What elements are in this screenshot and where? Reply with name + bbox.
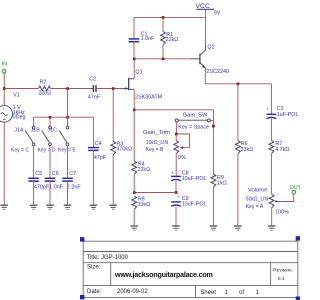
selection handle bbox=[80, 237, 84, 241]
svg-text:C4: C4 bbox=[95, 141, 102, 147]
wire bbox=[134, 16, 206, 18]
svg-text:+: + bbox=[2, 106, 5, 111]
capacitor C3 bbox=[266, 106, 298, 119]
svg-text:33kΩ: 33kΩ bbox=[241, 147, 254, 153]
svg-text:0.1: 0.1 bbox=[278, 276, 285, 282]
svg-text:0%: 0% bbox=[178, 155, 186, 161]
wire bbox=[212, 187, 214, 225]
svg-text:4.7kΩ: 4.7kΩ bbox=[275, 147, 289, 153]
junction bbox=[49, 116, 52, 119]
svg-text:J1C: J1C bbox=[47, 128, 57, 134]
ground bbox=[210, 226, 218, 230]
capacitor C6 bbox=[45, 171, 64, 190]
svg-text:Sheet: Sheet bbox=[200, 290, 216, 296]
wire bbox=[270, 118, 272, 140]
svg-text:470pF: 470pF bbox=[34, 184, 50, 190]
wire bbox=[4, 88, 38, 90]
svg-text:Q2: Q2 bbox=[207, 45, 214, 51]
source V1 bbox=[0, 92, 25, 122]
wire bbox=[67, 117, 69, 126]
wire bbox=[134, 192, 176, 194]
wire bbox=[270, 84, 272, 114]
svg-text:220Ω: 220Ω bbox=[38, 91, 51, 97]
svg-text:1: 1 bbox=[256, 290, 260, 296]
wire bbox=[279, 194, 294, 201]
potentiometer Gain_Trim bbox=[143, 130, 186, 161]
svg-text:+: + bbox=[177, 195, 180, 200]
wire bbox=[133, 209, 135, 225]
capacitor C4 bbox=[88, 141, 107, 161]
wire bbox=[67, 181, 69, 204]
svg-text:V1: V1 bbox=[13, 92, 20, 98]
resistor R8 bbox=[132, 196, 150, 209]
wire bbox=[33, 181, 35, 204]
svg-text:R2: R2 bbox=[40, 79, 47, 85]
junction bbox=[175, 191, 178, 194]
wire bbox=[205, 72, 271, 84]
wire bbox=[49, 146, 51, 178]
svg-text:J1B: J1B bbox=[31, 128, 41, 134]
selection handle bbox=[80, 295, 84, 299]
wire bbox=[205, 17, 207, 43]
svg-text:VCC: VCC bbox=[196, 3, 210, 10]
ground bbox=[234, 226, 242, 230]
junction bbox=[112, 87, 115, 90]
power VCC bbox=[196, 3, 221, 17]
svg-text:1: 1 bbox=[225, 290, 229, 296]
capacitor C2 bbox=[88, 77, 101, 101]
junction bbox=[3, 87, 6, 90]
svg-text:1kΩ: 1kΩ bbox=[217, 181, 227, 187]
svg-text:www.jacksonguitarpalace.com: www.jacksonguitarpalace.com bbox=[114, 271, 213, 279]
transistor Q2 bbox=[191, 44, 229, 75]
junction bbox=[162, 16, 165, 19]
wire bbox=[270, 154, 272, 195]
svg-text:1.0nF: 1.0nF bbox=[49, 184, 63, 190]
switch J1C bbox=[47, 126, 76, 153]
ground bbox=[90, 205, 98, 209]
switch Gain_SW bbox=[175, 113, 213, 131]
wire bbox=[33, 117, 35, 126]
svg-text:10uF-POL: 10uF-POL bbox=[182, 176, 207, 182]
svg-text:2006-09-02: 2006-09-02 bbox=[117, 289, 148, 295]
svg-text:Date:: Date: bbox=[87, 289, 102, 295]
junction bbox=[133, 58, 136, 61]
wire bbox=[112, 155, 114, 205]
svg-text:10uF-POL: 10uF-POL bbox=[182, 201, 207, 207]
wire bbox=[175, 207, 177, 226]
svg-text:2.2nF: 2.2nF bbox=[67, 184, 81, 190]
svg-text:Key = C: Key = C bbox=[11, 147, 29, 153]
svg-text:47nF: 47nF bbox=[88, 95, 101, 101]
svg-text:0Deg: 0Deg bbox=[13, 115, 26, 121]
junction bbox=[133, 191, 136, 194]
wire bbox=[237, 154, 239, 226]
wire bbox=[34, 117, 94, 147]
ground bbox=[46, 205, 54, 209]
svg-text:Title: JGP-1000: Title: JGP-1000 bbox=[87, 255, 129, 261]
svg-text:100%: 100% bbox=[275, 210, 289, 216]
resistor R2 bbox=[38, 79, 51, 96]
svg-text:OUT: OUT bbox=[290, 185, 300, 191]
junction bbox=[66, 87, 69, 90]
ground bbox=[268, 226, 276, 230]
resistor R4 bbox=[132, 161, 150, 174]
svg-text:+: + bbox=[266, 107, 269, 112]
svg-text:22kΩ: 22kΩ bbox=[166, 37, 179, 43]
wire bbox=[67, 89, 69, 118]
svg-text:Volume: Volume bbox=[248, 187, 267, 193]
svg-text:of: of bbox=[239, 290, 244, 296]
capacitor C8 bbox=[171, 170, 207, 182]
svg-text:Q1: Q1 bbox=[135, 70, 142, 76]
svg-text:C2: C2 bbox=[89, 77, 96, 83]
svg-text:22kΩ: 22kΩ bbox=[137, 167, 150, 173]
svg-text:J1A: J1A bbox=[14, 128, 24, 134]
wire bbox=[175, 154, 177, 176]
selection handle bbox=[296, 236, 300, 240]
switch J1B bbox=[31, 126, 56, 153]
svg-text:2SC2240: 2SC2240 bbox=[207, 69, 229, 75]
junction bbox=[66, 116, 69, 119]
svg-text:+: + bbox=[171, 170, 174, 175]
ground bbox=[130, 226, 138, 230]
wire bbox=[175, 181, 177, 193]
selection handle bbox=[296, 297, 300, 300]
ground bbox=[172, 226, 180, 230]
svg-text:9V: 9V bbox=[214, 11, 221, 17]
svg-text:Revision:: Revision: bbox=[273, 267, 293, 273]
resistor R7 bbox=[269, 140, 289, 153]
wire bbox=[237, 84, 239, 141]
transistor Q1 bbox=[122, 70, 163, 101]
svg-text:C5: C5 bbox=[35, 171, 42, 177]
wire bbox=[133, 59, 135, 79]
svg-text:Gain_Trim: Gain_Trim bbox=[143, 130, 170, 136]
svg-text:C7: C7 bbox=[69, 171, 76, 177]
capacitor C7 bbox=[62, 171, 81, 190]
svg-text:Key = B: Key = B bbox=[146, 147, 164, 153]
wire bbox=[134, 58, 191, 60]
capacitor C5 bbox=[28, 171, 50, 190]
svg-text:470kΩ: 470kΩ bbox=[116, 146, 132, 152]
svg-text:Key = D: Key = D bbox=[38, 147, 56, 153]
svg-text:IN: IN bbox=[2, 62, 7, 68]
wire bbox=[51, 88, 93, 90]
svg-text:50kΩ_LIN: 50kΩ_LIN bbox=[246, 196, 269, 202]
wire bbox=[178, 134, 190, 148]
junction bbox=[133, 109, 136, 112]
svg-text:Gain_SW: Gain_SW bbox=[183, 113, 208, 119]
wire bbox=[49, 181, 51, 204]
ground bbox=[64, 205, 72, 209]
ground bbox=[0, 205, 8, 209]
port IN bbox=[2, 62, 7, 76]
svg-text:1.0nF: 1.0nF bbox=[141, 36, 155, 42]
wire bbox=[112, 89, 114, 142]
svg-text:2SK30ATM: 2SK30ATM bbox=[135, 95, 163, 101]
wire bbox=[175, 122, 177, 134]
port OUT bbox=[290, 185, 302, 194]
resistor R9 bbox=[211, 174, 227, 187]
junction bbox=[162, 58, 165, 61]
resistor R6 bbox=[236, 140, 254, 153]
svg-text:Key = A: Key = A bbox=[246, 204, 264, 210]
wire bbox=[92, 150, 94, 204]
switch J1A bbox=[11, 126, 35, 153]
junction bbox=[237, 83, 240, 86]
wire bbox=[133, 174, 135, 192]
wire bbox=[3, 122, 5, 204]
svg-text:10kΩ_LIN: 10kΩ_LIN bbox=[146, 140, 169, 146]
svg-text:1uF-POL: 1uF-POL bbox=[277, 112, 299, 118]
capacitor C1 bbox=[129, 17, 155, 58]
capacitor C9 bbox=[171, 195, 206, 208]
svg-text:47pF: 47pF bbox=[94, 155, 107, 161]
ground bbox=[30, 205, 38, 209]
ground bbox=[109, 205, 117, 209]
resistor R3 bbox=[111, 141, 132, 154]
wire bbox=[33, 146, 35, 178]
wire bbox=[134, 110, 213, 174]
svg-text:C6: C6 bbox=[52, 171, 59, 177]
svg-text:Size:: Size: bbox=[87, 265, 101, 271]
wire bbox=[3, 76, 5, 106]
wire bbox=[67, 146, 69, 178]
svg-text:Key = Space: Key = Space bbox=[178, 125, 209, 131]
resistor R1 bbox=[161, 17, 179, 58]
potentiometer Volume bbox=[246, 187, 289, 215]
wire bbox=[96, 88, 122, 90]
wire bbox=[271, 208, 273, 226]
svg-text:33kΩ: 33kΩ bbox=[137, 202, 150, 208]
junction bbox=[175, 133, 178, 136]
wire bbox=[49, 117, 51, 126]
title block bbox=[83, 241, 298, 297]
junction bbox=[212, 125, 215, 128]
wire bbox=[133, 89, 135, 161]
